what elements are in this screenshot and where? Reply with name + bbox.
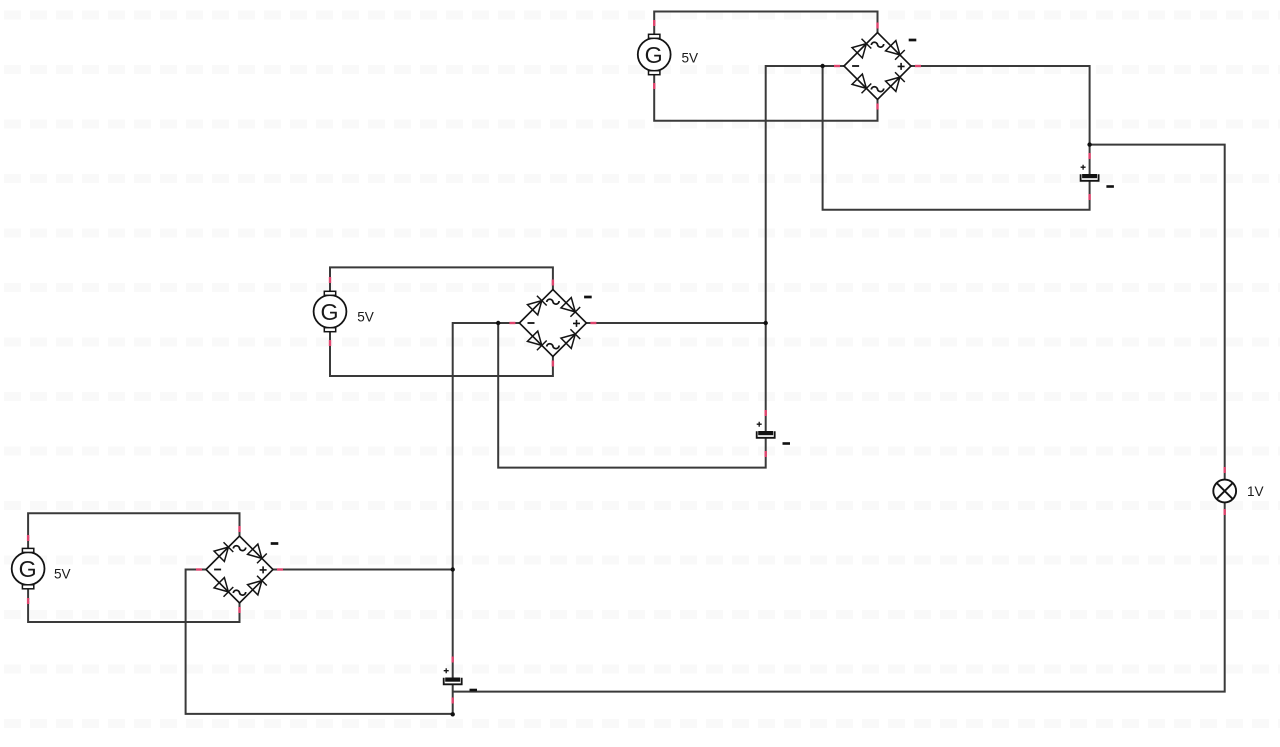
svg-text:1V: 1V: [1247, 484, 1264, 499]
svg-text:5V: 5V: [357, 310, 374, 325]
svg-text:5V: 5V: [682, 51, 699, 66]
svg-text:5V: 5V: [54, 567, 71, 582]
